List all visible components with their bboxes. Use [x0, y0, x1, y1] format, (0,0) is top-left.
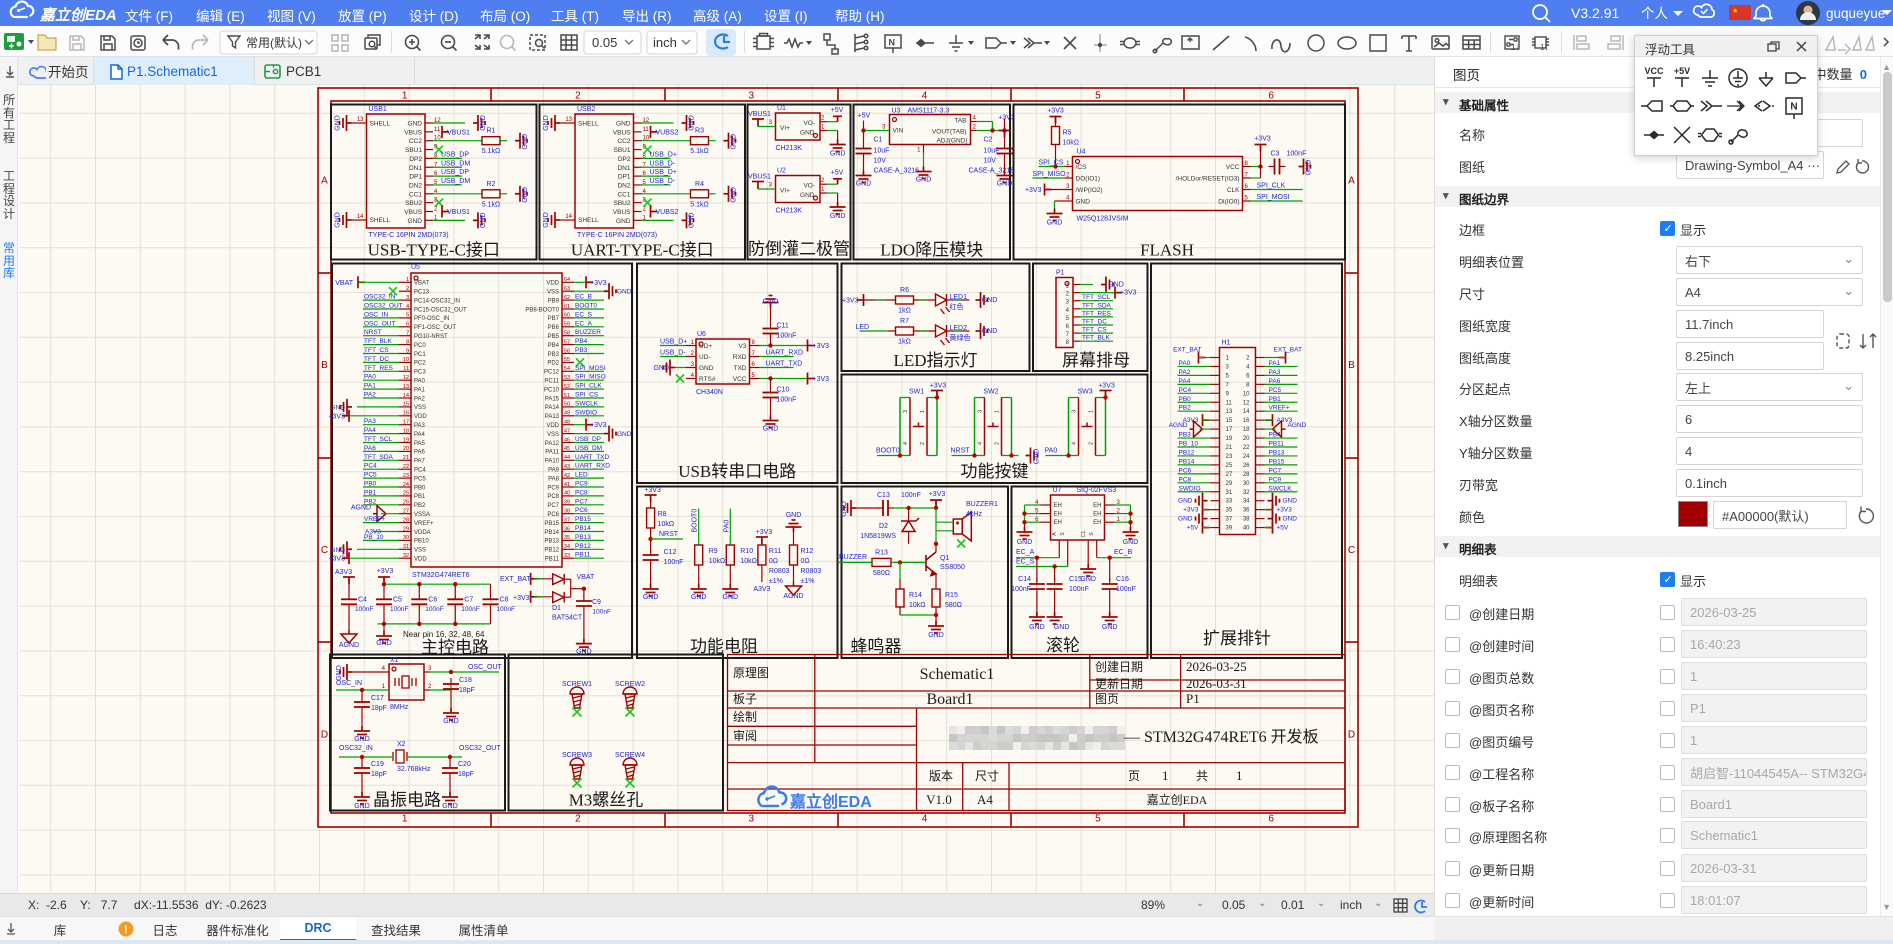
pin EH right 2	[1105, 513, 1115, 515]
svg-text:31: 31	[1226, 490, 1233, 496]
svg-text:3: 3	[1226, 364, 1230, 370]
svg-text:5: 5	[1095, 91, 1101, 102]
svg-text:GND: GND	[643, 594, 659, 601]
analog ground	[348, 610, 350, 630]
svg-text:PC3: PC3	[414, 370, 426, 376]
svg-text:VCC: VCC	[1226, 164, 1240, 171]
svg-text:+3V3: +3V3	[328, 413, 345, 420]
svg-text:SHELL: SHELL	[370, 217, 391, 224]
resistor R14 10k	[899, 562, 901, 579]
svg-text:N: N	[1790, 102, 1797, 113]
svg-text:绘制: 绘制	[733, 709, 757, 724]
svg-text:+3V3: +3V3	[590, 280, 607, 287]
no-connect SBU2	[435, 199, 443, 207]
title block	[728, 655, 1346, 811]
svg-text:3: 3	[903, 410, 909, 413]
pin 32	[1256, 491, 1265, 493]
crystal X1 8MHz	[389, 664, 424, 700]
node USB_D-	[660, 356, 686, 358]
svg-text:PD2: PD2	[547, 361, 559, 367]
svg-text:PC0: PC0	[414, 343, 426, 349]
svg-text:PB15: PB15	[544, 521, 559, 527]
svg-text:29: 29	[403, 526, 409, 532]
node PC5	[1265, 392, 1298, 394]
svg-text:TFT_BLK: TFT_BLK	[1082, 335, 1110, 342]
svg-text:C20: C20	[458, 761, 471, 768]
svg-text:18: 18	[1243, 427, 1250, 433]
svg-text:5.1kΩ: 5.1kΩ	[690, 201, 708, 208]
resistor R10 10kΩ	[726, 545, 734, 565]
capacitor C17 18pF	[354, 702, 370, 707]
capacitor C15 100nF	[1054, 567, 1056, 582]
svg-text:PB4: PB4	[548, 343, 560, 349]
pin 25	[1211, 464, 1220, 466]
svg-text:VDDA: VDDA	[414, 530, 431, 536]
svg-text:55: 55	[564, 357, 570, 363]
pin 39	[1211, 527, 1220, 529]
node PB0	[363, 486, 399, 488]
svg-text:U4: U4	[1077, 149, 1086, 156]
svg-text:PB13: PB13	[544, 539, 559, 545]
svg-text:GND: GND	[1102, 624, 1118, 631]
svg-text:GND: GND	[800, 130, 815, 137]
wire ADJ	[923, 145, 925, 153]
pin 14 PA2	[399, 397, 411, 399]
svg-text:PA1: PA1	[364, 383, 376, 390]
svg-text:U7: U7	[1053, 487, 1062, 494]
svg-text:VUBS2: VUBS2	[656, 129, 679, 136]
node TFT_SDA	[1080, 308, 1113, 310]
pin DN1	[634, 166, 642, 168]
pin 21	[1211, 446, 1220, 448]
svg-text:STM32G474RET6: STM32G474RET6	[412, 572, 470, 579]
svg-text:M3螺丝孔: M3螺丝孔	[569, 791, 644, 810]
capacitor C18 18pF	[443, 684, 459, 689]
svg-text:1kΩ: 1kΩ	[898, 339, 911, 346]
node NRST	[651, 538, 683, 540]
connector USB2	[575, 114, 634, 228]
svg-text:PB3: PB3	[1179, 432, 1192, 439]
ground	[1123, 527, 1139, 539]
analog ground	[786, 582, 802, 595]
node NRST	[363, 335, 399, 337]
svg-text:LED指示灯: LED指示灯	[893, 351, 977, 370]
node USB_DM	[433, 166, 462, 168]
pin 12	[1256, 401, 1265, 403]
node PB15	[574, 522, 604, 524]
svg-text:GND: GND	[841, 501, 848, 517]
pin 36	[1256, 509, 1265, 511]
wire	[894, 507, 936, 509]
power VUBS2	[651, 206, 658, 218]
svg-text:CH213K: CH213K	[776, 145, 803, 152]
svg-text:34: 34	[1243, 499, 1250, 505]
svg-text:PA2: PA2	[1179, 369, 1191, 376]
svg-text:GND: GND	[1029, 624, 1045, 631]
svg-text:R14: R14	[909, 592, 922, 599]
svg-text:GND: GND	[1283, 498, 1298, 505]
pin 35 PB13	[562, 539, 574, 541]
pin 51 PA15	[562, 397, 574, 399]
svg-text:+3V3: +3V3	[813, 343, 830, 350]
svg-text:共: 共	[1196, 769, 1208, 783]
svg-text:PC2: PC2	[414, 361, 426, 367]
svg-text:PB_10: PB_10	[364, 534, 384, 541]
pin 61 PB8-BOOT0	[562, 308, 574, 310]
svg-text:+5V: +5V	[831, 107, 844, 114]
pin 58 PB5	[562, 335, 574, 337]
power +3V3	[1045, 184, 1052, 196]
pin 6 PF1-OSC_OUT	[399, 326, 411, 328]
svg-text:EH: EH	[1054, 512, 1062, 518]
ground	[1196, 511, 1208, 527]
svg-text:C11: C11	[777, 323, 789, 330]
svg-text:PA5: PA5	[414, 441, 426, 447]
node OSC_OUT	[424, 671, 430, 673]
pin 16	[1256, 419, 1265, 421]
svg-text:V3: V3	[739, 343, 747, 350]
svg-text:防倒灌二极管: 防倒灌二极管	[748, 240, 850, 259]
svg-text:GND: GND	[1108, 282, 1124, 289]
pin CC1	[425, 193, 433, 195]
svg-text:24: 24	[403, 482, 409, 488]
pin DN1	[425, 166, 433, 168]
sheet border frame	[318, 88, 1358, 827]
svg-text:VBAT: VBAT	[577, 574, 595, 581]
svg-text:PA7: PA7	[414, 459, 426, 465]
capacitor C19 18pF	[354, 768, 370, 773]
svg-text:PB14: PB14	[544, 530, 559, 536]
svg-text:GND: GND	[617, 289, 632, 296]
svg-text:31: 31	[403, 544, 409, 550]
svg-text:GND: GND	[691, 594, 707, 601]
capacitor C5 100nF	[376, 599, 392, 604]
power +5V	[820, 183, 827, 185]
svg-text:34: 34	[564, 544, 570, 550]
power +3V3	[342, 552, 349, 564]
expansion header block	[1151, 264, 1342, 659]
svg-text:NRST: NRST	[659, 531, 679, 538]
svg-text:VBUS: VBUS	[613, 129, 631, 136]
svg-text:OSC32_IN: OSC32_IN	[364, 294, 396, 301]
svg-text:CC1: CC1	[617, 191, 630, 198]
svg-text:+5V: +5V	[831, 170, 844, 177]
pin 26	[1256, 464, 1265, 466]
svg-text:PA13: PA13	[545, 414, 560, 420]
wire GND top	[642, 122, 674, 124]
wire	[935, 508, 937, 544]
svg-text:BOOT0: BOOT0	[692, 509, 699, 533]
buzzer block	[842, 487, 1009, 659]
svg-text:尺寸: 尺寸	[975, 769, 999, 783]
svg-text:17: 17	[403, 420, 409, 426]
svg-text:VO-: VO-	[803, 120, 815, 127]
svg-text:PB6: PB6	[548, 325, 560, 331]
svg-text:41: 41	[564, 482, 570, 488]
no-connect SBU1	[435, 146, 443, 154]
svg-text:27: 27	[403, 509, 409, 515]
svg-text:GND: GND	[1283, 516, 1298, 523]
capacitor C11 100nF	[770, 334, 772, 346]
svg-text:47: 47	[564, 428, 570, 434]
svg-text:+3V3: +3V3	[842, 298, 859, 305]
pin 44 PA10	[562, 459, 574, 461]
svg-text:USB_DP: USB_DP	[441, 169, 469, 176]
node PA3	[1265, 374, 1298, 376]
pin CC2	[634, 140, 642, 142]
svg-text:VBUS: VBUS	[404, 209, 422, 216]
anti-backflow diode block	[748, 105, 851, 260]
pin 37 PB15	[562, 522, 574, 524]
svg-text:SPI_CLK: SPI_CLK	[1257, 183, 1286, 190]
ground	[997, 171, 1013, 183]
pin SBU1	[425, 149, 433, 151]
node PA6	[1265, 383, 1298, 385]
svg-text:0.05: 0.05	[592, 35, 617, 50]
svg-text:2: 2	[1246, 356, 1250, 362]
svg-text:4: 4	[1072, 442, 1078, 445]
node TFT_CS	[363, 353, 399, 355]
svg-text:51: 51	[564, 393, 570, 399]
svg-text:GND: GND	[336, 665, 343, 681]
svg-text:10kΩ: 10kΩ	[1063, 140, 1080, 147]
svg-text:GND: GND	[763, 426, 779, 433]
svg-text:LDO降压模块: LDO降压模块	[880, 241, 983, 260]
svg-text:32: 32	[403, 553, 409, 559]
pin VBUS	[634, 131, 642, 133]
svg-text:PC7: PC7	[575, 498, 588, 505]
power +3V3	[342, 410, 349, 422]
ground mid	[1087, 561, 1089, 564]
svg-text:4: 4	[978, 442, 984, 445]
svg-text:SPI_MISO: SPI_MISO	[1033, 171, 1067, 178]
node VREF+	[363, 522, 399, 524]
svg-text:OSC_OUT: OSC_OUT	[364, 320, 395, 327]
svg-text:BAT54CT: BAT54CT	[552, 615, 583, 622]
svg-text:59: 59	[564, 322, 570, 328]
svg-text:PC6: PC6	[1179, 467, 1192, 474]
pin DP1	[425, 175, 433, 177]
pin SHELL bottom	[560, 219, 575, 221]
svg-text:4: 4	[903, 442, 909, 445]
svg-text:BOOT0: BOOT0	[876, 448, 900, 455]
node PC5	[363, 477, 399, 479]
svg-text:PA12: PA12	[545, 441, 560, 447]
svg-text:H1: H1	[1222, 340, 1231, 347]
svg-text:14: 14	[403, 393, 409, 399]
connector USB2 block	[540, 105, 746, 260]
svg-text:2: 2	[821, 116, 825, 122]
svg-text:PB15: PB15	[1269, 458, 1285, 465]
svg-text:37: 37	[1226, 517, 1233, 523]
svg-text:PC7: PC7	[547, 503, 559, 509]
svg-text:27: 27	[1226, 472, 1233, 478]
svg-text:R10: R10	[740, 548, 753, 555]
svg-text:版本: 版本	[929, 769, 953, 783]
svg-text:FLASH: FLASH	[1140, 241, 1194, 260]
svg-text:PA0: PA0	[1045, 448, 1058, 455]
power +5V	[1203, 522, 1210, 534]
svg-text:30: 30	[403, 535, 409, 541]
svg-text:20: 20	[1243, 436, 1250, 442]
svg-text:U1: U1	[777, 105, 786, 112]
svg-text:DP2: DP2	[618, 156, 631, 163]
svg-text:VBUS: VBUS	[404, 129, 422, 136]
svg-text:功能电阻: 功能电阻	[690, 637, 758, 656]
svg-text:1N5819WS: 1N5819WS	[860, 533, 896, 540]
node TFT_RES	[363, 370, 399, 372]
svg-text:SWCLK: SWCLK	[1269, 485, 1293, 492]
node SPI_MOSI	[574, 370, 604, 372]
node PA0	[1046, 455, 1069, 457]
svg-text:36: 36	[564, 526, 570, 532]
svg-text:100nF: 100nF	[425, 606, 443, 613]
svg-text:C3: C3	[1271, 151, 1280, 158]
svg-text:10V: 10V	[984, 158, 997, 165]
svg-text:23: 23	[403, 473, 409, 479]
svg-text:GND: GND	[916, 177, 932, 184]
node USB_D+	[642, 175, 671, 177]
pin 26 PB2	[399, 504, 411, 506]
svg-text:AGND: AGND	[1288, 422, 1307, 429]
svg-text:DN1: DN1	[409, 165, 422, 172]
svg-text:UD-: UD-	[699, 354, 711, 361]
svg-text:14: 14	[565, 214, 572, 220]
pin 27 VSSA	[399, 513, 411, 515]
node PB14	[574, 531, 604, 533]
svg-text:10: 10	[1243, 391, 1250, 397]
ground	[1012, 455, 1019, 457]
svg-text:guqueyue: guqueyue	[1826, 6, 1885, 21]
svg-text:PB5: PB5	[548, 334, 560, 340]
svg-text:GND: GND	[616, 218, 631, 225]
svg-text:56: 56	[564, 348, 570, 354]
svg-text:PB11: PB11	[575, 552, 591, 559]
pin 20	[1256, 437, 1265, 439]
svg-text:R0803: R0803	[769, 568, 790, 575]
svg-text:GND: GND	[856, 181, 872, 188]
capacitor C10 100nF	[770, 379, 772, 388]
pin 13	[1211, 410, 1220, 412]
svg-text:更新日期: 更新日期	[1095, 676, 1143, 691]
svg-text:60: 60	[564, 313, 570, 319]
svg-text:GND: GND	[1076, 199, 1091, 206]
pin 42 PA8	[562, 477, 574, 479]
svg-text:TFT_SCL: TFT_SCL	[364, 436, 393, 443]
capacitor C9 100nF	[583, 589, 585, 598]
pin 23 PC5	[399, 477, 411, 479]
svg-text:10kΩ: 10kΩ	[740, 558, 757, 565]
svg-text:TFT_DC: TFT_DC	[364, 356, 389, 363]
svg-text:3: 3	[1066, 300, 1070, 306]
pin 1 VBAT	[399, 281, 411, 283]
ground	[354, 792, 370, 804]
USB-serial block	[637, 264, 838, 484]
svg-text:C5: C5	[393, 597, 402, 604]
svg-text:C16: C16	[1116, 576, 1129, 583]
svg-text:OSC32_IN: OSC32_IN	[339, 745, 373, 752]
svg-text:5.1kΩ: 5.1kΩ	[482, 148, 500, 155]
svg-text:SPI_MISO: SPI_MISO	[575, 374, 606, 381]
no-connect	[676, 375, 684, 383]
svg-text:+5V: +5V	[1187, 525, 1199, 532]
svg-text:+5V: +5V	[858, 113, 871, 120]
svg-text:蜂鸣器: 蜂鸣器	[851, 637, 902, 656]
svg-text:VSS: VSS	[414, 548, 426, 554]
ground	[340, 399, 352, 415]
svg-text:PC11: PC11	[544, 379, 559, 385]
svg-text:VREF+: VREF+	[1269, 405, 1290, 412]
capacitor C4 100nF	[341, 599, 357, 604]
ground	[916, 167, 932, 179]
svg-text:24: 24	[1243, 454, 1250, 460]
LCD header block	[1033, 264, 1148, 372]
pin 9	[1211, 392, 1220, 394]
svg-text:SWCLK: SWCLK	[575, 400, 599, 407]
svg-text:PA3: PA3	[414, 423, 426, 429]
svg-text:VSSA: VSSA	[414, 512, 430, 518]
svg-text:PA6: PA6	[364, 445, 376, 452]
ground	[643, 584, 659, 596]
led LED1 红色	[936, 294, 950, 314]
svg-text:36: 36	[1243, 508, 1250, 514]
svg-text:EXT_BAT: EXT_BAT	[1274, 347, 1302, 354]
svg-text:页: 页	[1128, 769, 1140, 783]
pin 7 PG10-NRST	[399, 335, 411, 337]
svg-text:PG10-NRST: PG10-NRST	[414, 334, 448, 340]
svg-text:VBUS1: VBUS1	[447, 209, 470, 216]
svg-text:PA3: PA3	[1269, 369, 1281, 376]
svg-text:PB1: PB1	[1269, 396, 1282, 403]
svg-text:PA1: PA1	[1269, 360, 1281, 367]
svg-text:8MHz: 8MHz	[390, 704, 409, 711]
svg-text:+3V3: +3V3	[1183, 507, 1199, 514]
pin 5	[1211, 374, 1220, 376]
svg-text:C17: C17	[371, 695, 384, 702]
svg-text:U6: U6	[697, 331, 706, 338]
svg-text:CC2: CC2	[409, 138, 422, 145]
svg-text:3: 3	[748, 814, 754, 825]
svg-text:USB_DM: USB_DM	[441, 178, 470, 185]
ground	[682, 212, 694, 228]
node PB2	[1178, 410, 1211, 412]
svg-text:AGND: AGND	[351, 505, 371, 512]
pin VBUS	[425, 211, 433, 213]
power VBUS1	[442, 206, 449, 218]
ground	[548, 212, 560, 228]
svg-text:PB12: PB12	[1179, 449, 1195, 456]
node PB13	[574, 539, 604, 541]
svg-text:PC8: PC8	[575, 489, 588, 496]
svg-text:AGND: AGND	[1169, 422, 1188, 429]
M3 screw holes block	[509, 655, 724, 811]
svg-text:100nF: 100nF	[901, 492, 921, 499]
ground	[376, 631, 392, 643]
svg-text:26: 26	[403, 500, 409, 506]
svg-text:UART_RXD: UART_RXD	[575, 463, 610, 470]
wire pin2	[424, 689, 430, 691]
svg-text:VREF+: VREF+	[414, 521, 434, 527]
svg-text:OSC32_OUT: OSC32_OUT	[459, 745, 501, 752]
svg-text:8: 8	[406, 339, 409, 345]
pin 19 PA5	[399, 442, 411, 444]
pin 19	[1211, 437, 1220, 439]
node PC4	[1178, 392, 1211, 394]
node SPI_MISO	[574, 379, 604, 381]
pin 34 PB12	[562, 548, 574, 550]
svg-text:PB12: PB12	[544, 548, 559, 554]
power VBUS1	[442, 126, 449, 138]
